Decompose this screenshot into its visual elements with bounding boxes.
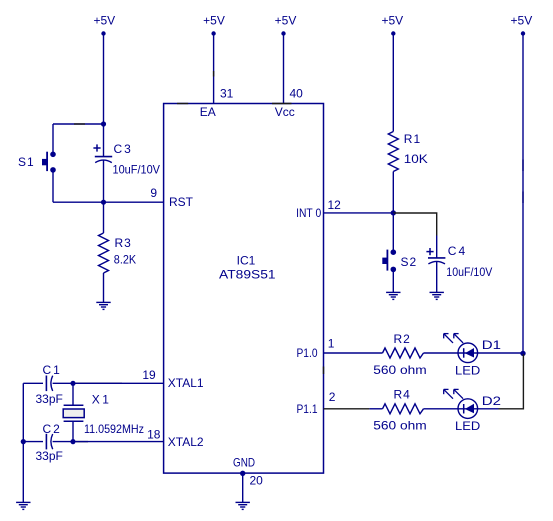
svg-text:X1: X1	[92, 393, 112, 407]
svg-text:+5V: +5V	[203, 14, 225, 28]
svg-text:33pF: 33pF	[36, 449, 63, 463]
svg-text:10uF/10V: 10uF/10V	[446, 265, 492, 279]
svg-text:560 ohm: 560 ohm	[373, 418, 426, 432]
svg-text:C2: C2	[43, 422, 62, 436]
svg-text:+5V: +5V	[275, 14, 297, 28]
svg-text:8.2K: 8.2K	[114, 252, 136, 266]
svg-text:D1: D1	[482, 338, 502, 352]
svg-text:18: 18	[147, 427, 161, 441]
svg-text:12: 12	[328, 198, 342, 212]
svg-text:10K: 10K	[404, 152, 428, 166]
svg-text:C1: C1	[43, 363, 62, 377]
svg-text:LED: LED	[455, 419, 481, 433]
svg-text:LED: LED	[455, 363, 481, 377]
svg-text:D2: D2	[482, 394, 502, 408]
svg-text:RST: RST	[169, 195, 194, 209]
svg-text:S1: S1	[18, 155, 35, 169]
svg-text:XTAL2: XTAL2	[168, 435, 204, 449]
svg-text:R1: R1	[404, 132, 421, 146]
svg-text:9: 9	[150, 186, 157, 200]
svg-text:33pF: 33pF	[36, 392, 63, 406]
svg-text:P1.0: P1.0	[297, 346, 318, 360]
svg-text:Vcc: Vcc	[275, 105, 295, 119]
svg-text:XTAL1: XTAL1	[168, 376, 204, 390]
svg-text:GND: GND	[233, 455, 255, 469]
svg-text:+5V: +5V	[511, 14, 533, 28]
svg-text:20: 20	[250, 474, 264, 488]
svg-text:560 ohm: 560 ohm	[373, 363, 426, 377]
svg-text:C4: C4	[448, 244, 467, 258]
svg-text:S2: S2	[401, 255, 418, 269]
svg-text:R2: R2	[394, 332, 411, 346]
svg-text:+5V: +5V	[93, 14, 115, 28]
svg-text:R4: R4	[394, 387, 411, 401]
svg-text:C3: C3	[114, 142, 133, 156]
svg-text:AT89S51: AT89S51	[219, 267, 276, 281]
svg-text:IC1: IC1	[237, 254, 256, 268]
svg-text:P1.1: P1.1	[297, 402, 318, 416]
svg-text:11.0592MHz: 11.0592MHz	[84, 422, 144, 436]
svg-text:+5V: +5V	[381, 14, 403, 28]
svg-text:2: 2	[329, 390, 336, 404]
svg-text:19: 19	[142, 368, 156, 382]
svg-text:40: 40	[290, 87, 304, 101]
svg-text:R3: R3	[115, 236, 132, 250]
svg-text:10uF/10V: 10uF/10V	[113, 162, 161, 176]
svg-text:31: 31	[220, 87, 234, 101]
svg-text:1: 1	[328, 336, 335, 350]
svg-text:EA: EA	[200, 105, 216, 119]
svg-text:INT 0: INT 0	[296, 206, 321, 220]
